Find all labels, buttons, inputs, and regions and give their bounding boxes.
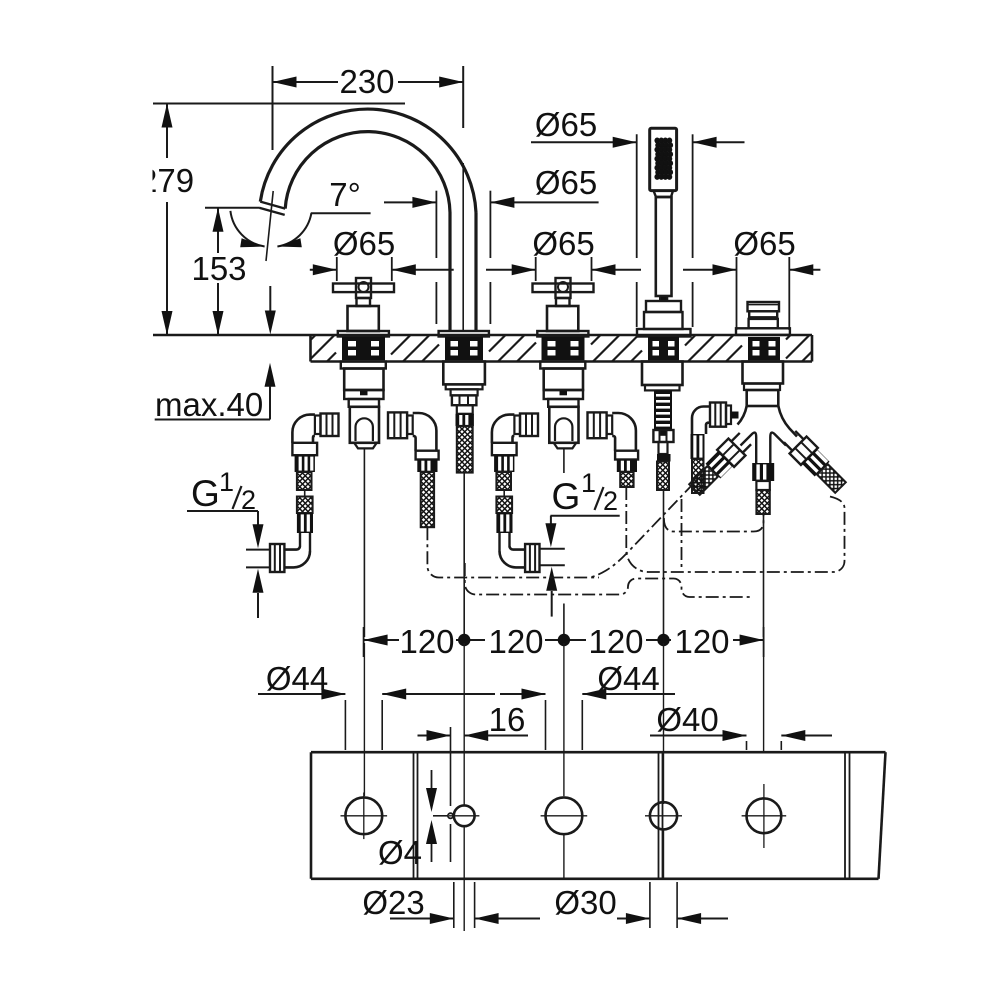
- valve 2 above deck: [533, 278, 594, 337]
- svg-text:Ø65: Ø65: [535, 164, 597, 201]
- 7 degree annotation: [230, 191, 370, 335]
- svg-text:120: 120: [674, 623, 729, 660]
- svg-text:Ø65: Ø65: [532, 225, 594, 262]
- hole 5 O40: [742, 784, 787, 848]
- valve 1 G1/2 elbow: [270, 544, 310, 572]
- svg-text:Ø30: Ø30: [554, 884, 616, 921]
- svg-text:153: 153: [191, 250, 246, 287]
- svg-text:Ø65: Ø65: [733, 225, 795, 262]
- bottom view deck plate: [311, 752, 886, 879]
- valve 1 under-deck body: [315, 362, 413, 449]
- valve 1 above deck: [333, 278, 394, 337]
- valve 1 left branch hose: [292, 415, 317, 551]
- dim 279 vertical: [162, 104, 173, 336]
- hole 3 O44: [541, 797, 588, 834]
- dim 153 vertical: [205, 208, 260, 335]
- top reference line: [153, 103, 405, 105]
- dim O44 hole3: [500, 689, 675, 751]
- diverter above deck: [736, 302, 790, 335]
- svg-text:Ø4: Ø4: [378, 834, 422, 871]
- svg-text:2: 2: [603, 486, 618, 516]
- svg-text:max.40: max.40: [155, 386, 263, 423]
- valve 1 right branch hose: [413, 413, 439, 527]
- svg-text:Ø44: Ø44: [266, 660, 328, 697]
- diverter right angled hose: [781, 428, 849, 496]
- max.40 annotation: [155, 363, 276, 420]
- hose routing dash-dot lines: [427, 483, 844, 597]
- dim 16: [418, 727, 529, 862]
- deck side view: [153, 335, 812, 362]
- svg-text:Ø40: Ø40: [656, 701, 718, 738]
- dim 230 horizontal: [273, 66, 464, 150]
- diverter left angled hose: [686, 430, 754, 498]
- hand shower ext lines: [637, 134, 693, 327]
- dim 120 spacing line: [364, 626, 764, 657]
- svg-text:230: 230: [339, 63, 394, 100]
- diverter centerline: [763, 514, 765, 637]
- shower spray dots: [654, 138, 673, 180]
- diverter upper-left elbow and hose: [691, 403, 739, 494]
- svg-text:G: G: [191, 473, 220, 514]
- spout under-deck shank and hose: [443, 362, 485, 473]
- svg-text:120: 120: [488, 623, 543, 660]
- valve 2 G1/2 elbow (mirrored, points right): [500, 544, 540, 572]
- hole 2 O23: [449, 805, 479, 826]
- valve 2 under-deck body: [514, 362, 612, 449]
- deck hatching: [311, 335, 812, 362]
- spout supply centerline: [463, 473, 465, 637]
- dim O65 spout row: [384, 191, 599, 324]
- G 1/2 label left: [187, 467, 269, 618]
- hole O4 pin: [448, 813, 453, 818]
- hole 1 O44: [341, 793, 388, 840]
- svg-text:Ø65: Ø65: [535, 106, 597, 143]
- hand shower: [637, 128, 691, 336]
- dim O65 diverter row3: [683, 257, 820, 330]
- diverter center hose: [752, 445, 774, 514]
- svg-text:G: G: [552, 476, 581, 517]
- svg-text:120: 120: [588, 623, 643, 660]
- svg-text:120: 120: [399, 623, 454, 660]
- svg-text:1: 1: [219, 467, 234, 497]
- dim O65 valve2 row3: [486, 257, 641, 281]
- valve 2 right branch hose: [612, 413, 638, 487]
- dim O30 hole4: [617, 882, 728, 928]
- lines continuing to bottom view: [364, 643, 763, 931]
- dim O65 valve1 row3: [310, 257, 454, 281]
- through-deck threaded shanks: [342, 337, 780, 360]
- valve 1 centerline: [363, 448, 365, 637]
- svg-text:16: 16: [489, 701, 526, 738]
- svg-text:Ø23: Ø23: [362, 884, 424, 921]
- spout C-curve: [260, 109, 489, 336]
- dim O23 hole2: [390, 882, 540, 928]
- svg-text:7°: 7°: [329, 176, 361, 213]
- dim O44 hole1: [258, 689, 495, 751]
- valve 2 centerline: [563, 448, 565, 473]
- valve 2 left branch hose: [492, 415, 517, 551]
- svg-text:1: 1: [581, 468, 596, 498]
- hand shower under-deck: [642, 362, 683, 491]
- dim O65 hand shower top row: [531, 137, 745, 148]
- svg-text:Ø44: Ø44: [597, 660, 659, 697]
- dim O40 hole5: [650, 730, 832, 750]
- hole 4 O30: [645, 802, 682, 829]
- svg-text:Ø65: Ø65: [333, 225, 395, 262]
- dim O4 pin: [426, 770, 448, 862]
- G 1/2 label right: [541, 468, 620, 617]
- diverter under-deck Y body: [738, 362, 798, 446]
- hand shower centerline: [663, 490, 665, 637]
